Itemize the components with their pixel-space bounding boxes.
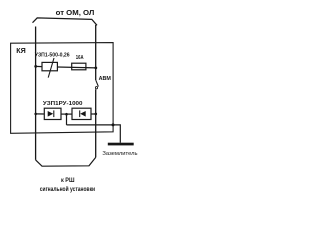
wire: right wire lower section (switch to bottom) [95,89,97,157]
node: midpoint junction dot between equalizers [65,113,68,116]
label КЯ [16,48,26,55]
svg-text:16А: 16А [76,55,84,61]
wire: between equalizers [61,113,72,115]
wire: midpoint drop to ground line [66,114,68,125]
label "от ОМ, ОЛ" [56,8,95,17]
surge arrester FV1 УЗП1-500-0,26 (rect with diagonal) [42,58,57,78]
equalizer FV3 (УЗП1РУ-1000, left-pointing) [72,108,91,119]
node: junction dot on left wire, row 1 [34,65,37,68]
wire: ground line horizontal to earth electrode [67,125,121,143]
wire: row 2 left wire to equalizer 1 [36,113,45,115]
svg-text:от ОМ, ОЛ: от ОМ, ОЛ [56,8,95,17]
label сигнальной установки [40,186,95,193]
label к РШ [61,177,75,184]
earth electrode (Заземлитель) bar [108,143,134,146]
node: junction dot on left wire, row 2 [34,113,37,116]
label УЗП1РУ-1000 [43,101,83,107]
cable bracket to RSh (bottom) [36,157,96,166]
wire: row 1 horizontal (node to varistor) [36,65,42,67]
svg-text:АВМ: АВМ [99,76,112,82]
node: dot where ground line meets box edge [112,123,115,126]
label УЗП1-500-0,26 [35,53,70,59]
wire: equalizer 2 to right wire [91,113,96,115]
switch АВМ (automatic breaker): blade and contact circle [95,80,98,89]
fuse FU1 16А [72,63,86,70]
node: junction dot on right wire, row 2 [95,113,98,116]
svg-text:сигнальной установки: сигнальной установки [40,186,95,193]
label Заземлитель [102,151,137,157]
wire: left line wire (OM), vertical [35,27,37,160]
svg-text:УЗП1РУ-1000: УЗП1РУ-1000 [43,101,83,107]
line group bracket (from OM, OL) [33,18,98,25]
svg-text:УЗП1-500-0,26: УЗП1-500-0,26 [35,53,70,59]
svg-text:КЯ: КЯ [16,48,26,55]
wire: row 1 horizontal (varistor to fuse to right wire) [57,66,95,69]
label 16А [76,55,84,61]
enclosure box KYa (cable box) [11,43,114,134]
wire: right line wire (OL), vertical upper section to switch [95,25,97,80]
svg-text:Заземлитель: Заземлитель [102,151,137,157]
svg-text:к РШ: к РШ [61,177,75,184]
label АВМ [99,76,112,82]
node: junction dot on right wire, row 1 [94,67,97,70]
equalizer FV2 (УЗП1РУ-1000, right-pointing) [44,108,61,119]
